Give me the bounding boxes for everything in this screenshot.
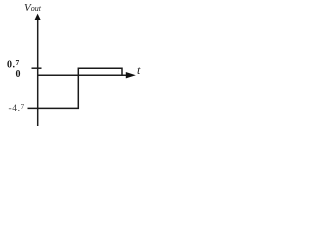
node Vout label <box>24 3 41 14</box>
node -4.7 label <box>9 104 25 115</box>
tick 0.7 level <box>32 67 42 69</box>
x-axis <box>37 72 136 78</box>
node 0 label <box>16 70 21 80</box>
y-axis <box>35 14 41 126</box>
node 0.7 label <box>7 59 20 71</box>
node t label <box>137 64 140 76</box>
wire waveform Vout <box>28 68 123 108</box>
